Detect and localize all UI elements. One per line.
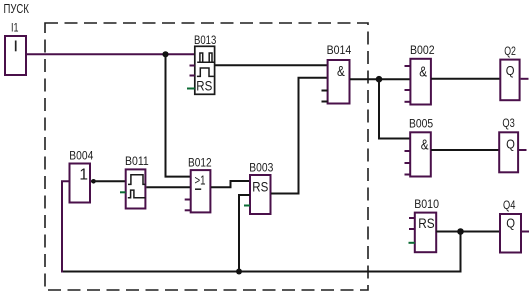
svg-text:RS: RS — [252, 178, 268, 194]
wire bottom up to B003 in2 — [239, 195, 250, 272]
B013 waveform symbol bottom — [197, 68, 214, 76]
B005 stub in4 — [405, 174, 411, 176]
input I1 — [5, 23, 26, 75]
wire B014 out to B002 in2 — [350, 78, 410, 80]
svg-text:B002: B002 — [410, 45, 435, 57]
B011 waveform symbol bottom — [128, 190, 146, 198]
wire B004 out to B011 in — [91, 180, 125, 182]
block B005 AND — [409, 119, 433, 177]
B010 stub in1 — [409, 217, 415, 219]
block B014 AND — [327, 45, 352, 104]
svg-text:Q2: Q2 — [504, 46, 516, 58]
svg-text:>1: >1 — [195, 173, 206, 188]
B011 stub par green — [120, 191, 126, 193]
B013 waveform symbol top — [197, 53, 214, 62]
B002 stub in3 — [405, 89, 411, 91]
wire junction down to B012 in1 — [166, 54, 191, 176]
block B010 RS latch — [414, 199, 439, 252]
wire junction down to B005 in1 — [379, 79, 410, 138]
B010 stub in2 — [409, 228, 415, 230]
node B004 output dot — [91, 179, 96, 184]
B014 stub in4 — [322, 101, 328, 103]
svg-text:RS: RS — [196, 78, 212, 94]
B013 stub in3 — [190, 75, 195, 77]
svg-text:Q: Q — [506, 136, 515, 151]
B005 stub in2 — [405, 150, 411, 152]
svg-text:Q: Q — [506, 63, 515, 78]
svg-text:B014: B014 — [327, 45, 352, 57]
svg-text:B010: B010 — [414, 199, 439, 211]
wire bottom up to B004 in — [62, 181, 70, 272]
node junction I1 wire — [162, 51, 168, 57]
B002 stub in4 — [405, 101, 411, 103]
wire feedback junction down and left along bottom — [62, 232, 461, 272]
svg-text:B012: B012 — [188, 157, 212, 169]
svg-text:B003: B003 — [249, 163, 273, 175]
dashed program border — [45, 23, 368, 290]
output Q2 — [500, 46, 519, 100]
svg-text:1: 1 — [79, 167, 88, 184]
output Q4 — [500, 200, 521, 253]
svg-text:B005: B005 — [409, 119, 433, 131]
svg-text:&: & — [337, 63, 345, 80]
wire B002 out to Q2 — [431, 78, 500, 80]
node junction bottom wire — [236, 269, 242, 275]
svg-text:&: & — [421, 136, 429, 153]
block B003 RS latch — [249, 163, 273, 215]
wire B003 out up to B014 in2 — [271, 78, 328, 194]
B013 stub in2 — [190, 65, 195, 67]
B010 stub par green — [409, 242, 415, 244]
svg-text:I1: I1 — [11, 23, 19, 35]
block B002 AND — [410, 45, 435, 105]
B005 stub in3 — [405, 162, 411, 164]
B012 stub in4 — [185, 209, 191, 211]
svg-text:ПУСК: ПУСК — [4, 2, 30, 16]
svg-text:Q4: Q4 — [503, 200, 516, 212]
svg-text:B004: B004 — [69, 150, 94, 162]
block B011 pulse relay — [125, 156, 149, 209]
wire B005 out to Q3 — [431, 149, 499, 151]
node junction B014 out — [376, 76, 383, 83]
svg-text:B011: B011 — [125, 156, 149, 168]
svg-text:RS: RS — [418, 215, 434, 231]
block B012 OR — [188, 157, 212, 212]
block B013 pulse generator — [194, 35, 216, 94]
wire B010 out to Q4 — [436, 231, 500, 233]
output Q3 — [499, 118, 518, 172]
wire B012 out to B003 in1 — [211, 181, 250, 187]
svg-text:&: & — [419, 63, 427, 80]
B003 stub par green — [244, 205, 250, 207]
B002 stub in1 — [405, 65, 411, 67]
B012 stub in3 — [185, 199, 191, 201]
svg-text:Q3: Q3 — [502, 118, 514, 130]
svg-text:Q: Q — [506, 216, 515, 231]
B014 stub in3 — [322, 90, 328, 92]
Q3 output stub — [519, 149, 527, 151]
B011 waveform symbol top — [128, 175, 145, 185]
B013 stub par green — [187, 88, 195, 90]
wire B013 out to B014 in1 — [215, 64, 327, 66]
svg-text:B013: B013 — [194, 35, 216, 47]
wire B011 out to B012 in2 — [146, 186, 190, 188]
Q2 output stub — [521, 78, 529, 80]
block B004 NOT — [69, 150, 94, 202]
node junction B010 out — [457, 228, 464, 235]
wire I1 to B013 — [26, 53, 194, 55]
Q4 output stub — [521, 231, 529, 233]
